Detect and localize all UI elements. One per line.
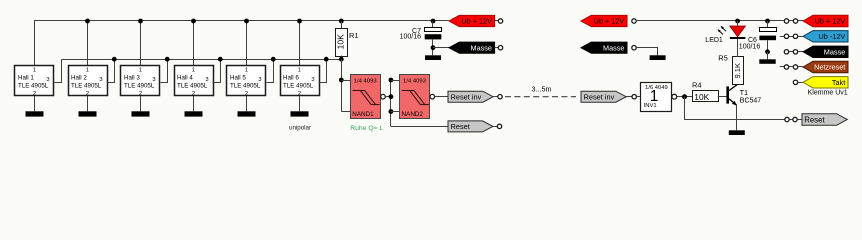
svg-text:TLE 4905L: TLE 4905L (18, 83, 49, 90)
svg-text:1/4 4093: 1/4 4093 (354, 78, 378, 84)
svg-text:Masse: Masse (471, 43, 493, 52)
svg-text:1: 1 (245, 68, 248, 74)
svg-text:Reset inv: Reset inv (584, 93, 615, 102)
svg-text:TLE 4905L: TLE 4905L (283, 83, 314, 90)
svg-text:Hall 1: Hall 1 (18, 75, 34, 82)
svg-text:Netzreset: Netzreset (814, 63, 845, 72)
svg-text:Reset: Reset (451, 122, 470, 131)
svg-text:2: 2 (245, 91, 248, 97)
svg-text:3: 3 (258, 77, 261, 83)
svg-text:Ub -12V: Ub -12V (819, 32, 846, 41)
svg-text:Ub + 12V: Ub + 12V (815, 17, 846, 26)
svg-text:2: 2 (86, 91, 89, 97)
svg-text:NAND1: NAND1 (352, 111, 374, 118)
svg-text:Ub + 12V: Ub + 12V (461, 17, 492, 26)
svg-text:T1: T1 (740, 90, 748, 97)
svg-text:1: 1 (139, 68, 142, 74)
svg-text:1: 1 (192, 68, 195, 74)
svg-text:100/16: 100/16 (400, 34, 422, 41)
svg-text:1: 1 (86, 68, 89, 74)
svg-text:100/16: 100/16 (739, 44, 761, 51)
svg-text:2: 2 (298, 91, 301, 97)
svg-text:Hall 4: Hall 4 (177, 75, 193, 82)
svg-text:10K: 10K (336, 34, 346, 49)
svg-text:1: 1 (298, 68, 301, 74)
svg-text:Hall 6: Hall 6 (283, 75, 299, 82)
svg-text:BC547: BC547 (740, 98, 762, 105)
svg-text:1: 1 (33, 68, 36, 74)
svg-text:Takt: Takt (832, 78, 845, 87)
svg-text:LED1: LED1 (705, 37, 723, 44)
svg-text:2: 2 (33, 91, 36, 97)
svg-text:3: 3 (205, 77, 208, 83)
svg-text:1/4 4093: 1/4 4093 (403, 78, 427, 84)
svg-text:R5: R5 (718, 54, 728, 63)
svg-text:Ruhe Q= L: Ruhe Q= L (350, 125, 383, 132)
svg-text:10K: 10K (694, 92, 709, 102)
svg-text:Masse: Masse (824, 48, 846, 57)
svg-text:9.1K: 9.1K (733, 63, 742, 78)
svg-text:Reset: Reset (804, 115, 825, 124)
svg-text:2: 2 (192, 91, 195, 97)
svg-text:3: 3 (46, 77, 49, 83)
svg-text:TLE 4905L: TLE 4905L (230, 83, 261, 90)
svg-text:TLE 4905L: TLE 4905L (177, 83, 208, 90)
svg-text:Klemme Uv1: Klemme Uv1 (808, 90, 848, 97)
svg-text:INV1: INV1 (644, 103, 657, 109)
svg-text:Hall 2: Hall 2 (71, 75, 87, 82)
svg-text:3: 3 (99, 77, 102, 83)
svg-text:TLE 4905L: TLE 4905L (71, 83, 102, 90)
svg-text:Reset inv: Reset inv (451, 93, 482, 102)
svg-text:2: 2 (139, 91, 142, 97)
svg-text:TLE 4905L: TLE 4905L (124, 83, 155, 90)
svg-text:unipolar: unipolar (289, 125, 311, 132)
svg-text:Masse: Masse (603, 43, 625, 52)
svg-text:R1: R1 (349, 31, 359, 40)
svg-text:3: 3 (152, 77, 155, 83)
svg-text:Ub + 12V: Ub + 12V (594, 17, 625, 26)
svg-text:3...5m: 3...5m (532, 85, 552, 94)
svg-text:NAND2: NAND2 (402, 111, 424, 118)
svg-text:Hall 5: Hall 5 (230, 75, 246, 82)
svg-text:3: 3 (311, 77, 314, 83)
svg-text:Hall 3: Hall 3 (124, 75, 140, 82)
svg-text:R4: R4 (692, 80, 702, 89)
